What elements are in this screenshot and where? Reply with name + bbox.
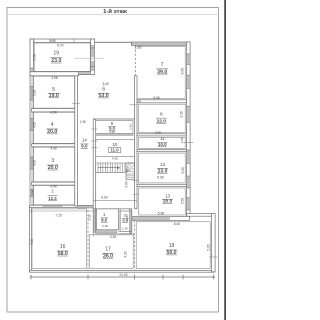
svg-text:6.40: 6.40 bbox=[103, 82, 110, 86]
svg-text:2.85: 2.85 bbox=[135, 46, 142, 50]
svg-text:7: 7 bbox=[161, 62, 164, 68]
svg-text:2.56: 2.56 bbox=[88, 214, 92, 220]
svg-text:7.40: 7.40 bbox=[30, 239, 34, 245]
svg-text:3.10: 3.10 bbox=[102, 224, 108, 228]
svg-text:6: 6 bbox=[102, 87, 105, 93]
svg-text:14: 14 bbox=[82, 138, 87, 143]
svg-text:5.95: 5.95 bbox=[206, 244, 210, 250]
svg-text:3: 3 bbox=[51, 158, 54, 164]
svg-text:5.05: 5.05 bbox=[125, 181, 129, 187]
svg-text:12.4: 12.4 bbox=[48, 196, 57, 201]
svg-text:3.26: 3.26 bbox=[180, 111, 184, 117]
svg-text:1.50: 1.50 bbox=[180, 137, 184, 143]
svg-text:20.0: 20.0 bbox=[163, 199, 173, 205]
svg-text:19.0: 19.0 bbox=[49, 93, 59, 99]
svg-text:4.98: 4.98 bbox=[50, 146, 56, 150]
svg-text:4.98: 4.98 bbox=[50, 110, 56, 114]
svg-text:5.96: 5.96 bbox=[153, 96, 160, 100]
svg-text:3.00: 3.00 bbox=[181, 167, 185, 173]
svg-text:39.0: 39.0 bbox=[157, 69, 167, 75]
svg-text:17: 17 bbox=[105, 247, 111, 253]
svg-text:1.90: 1.90 bbox=[80, 120, 87, 124]
svg-text:1.50: 1.50 bbox=[129, 124, 133, 130]
svg-text:4.50: 4.50 bbox=[112, 157, 118, 161]
svg-text:6.60: 6.60 bbox=[101, 195, 108, 199]
svg-text:6.58: 6.58 bbox=[181, 68, 185, 74]
svg-text:53.0: 53.0 bbox=[98, 93, 108, 99]
svg-text:58.0: 58.0 bbox=[58, 251, 68, 257]
svg-text:8: 8 bbox=[160, 111, 163, 117]
svg-text:2.56: 2.56 bbox=[30, 189, 34, 195]
svg-text:6.70: 6.70 bbox=[57, 43, 64, 47]
svg-text:21.00: 21.00 bbox=[119, 273, 127, 277]
svg-text:4.50: 4.50 bbox=[109, 130, 115, 134]
svg-text:11: 11 bbox=[160, 136, 165, 141]
svg-text:20.0: 20.0 bbox=[47, 129, 57, 135]
svg-text:18: 18 bbox=[169, 243, 175, 249]
svg-text:5.96: 5.96 bbox=[155, 130, 161, 134]
svg-text:26.0: 26.0 bbox=[103, 253, 113, 259]
svg-text:4.00: 4.00 bbox=[33, 122, 37, 128]
svg-text:11.0: 11.0 bbox=[111, 148, 120, 153]
svg-text:4.98: 4.98 bbox=[51, 76, 57, 80]
svg-text:12: 12 bbox=[160, 162, 166, 168]
svg-text:4.35: 4.35 bbox=[110, 235, 117, 239]
svg-text:50.0: 50.0 bbox=[166, 250, 176, 256]
svg-text:9.0: 9.0 bbox=[81, 144, 88, 149]
svg-text:3.58: 3.58 bbox=[32, 54, 36, 60]
svg-text:2.20: 2.20 bbox=[125, 215, 129, 221]
svg-text:7.25: 7.25 bbox=[55, 213, 62, 217]
svg-text:4: 4 bbox=[51, 122, 54, 128]
svg-text:4.00: 4.00 bbox=[33, 160, 37, 166]
svg-text:1-й этаж: 1-й этаж bbox=[103, 8, 128, 15]
svg-text:10: 10 bbox=[112, 142, 118, 147]
svg-text:8.40: 8.40 bbox=[174, 222, 181, 226]
svg-text:3.98: 3.98 bbox=[33, 90, 37, 96]
svg-text:3.56: 3.56 bbox=[181, 198, 185, 204]
svg-text:23.0: 23.0 bbox=[51, 58, 61, 64]
svg-text:4.20: 4.20 bbox=[123, 251, 127, 257]
svg-text:19: 19 bbox=[54, 50, 60, 56]
svg-text:5.96: 5.96 bbox=[158, 211, 165, 215]
svg-text:8.0: 8.0 bbox=[101, 217, 107, 222]
svg-text:5.96: 5.96 bbox=[157, 176, 164, 180]
svg-text:13: 13 bbox=[165, 193, 171, 198]
svg-text:10.0: 10.0 bbox=[158, 142, 167, 147]
svg-text:22.0: 22.0 bbox=[157, 118, 167, 124]
svg-text:16: 16 bbox=[60, 244, 66, 250]
svg-text:1.35: 1.35 bbox=[122, 226, 128, 230]
svg-text:23.0: 23.0 bbox=[158, 168, 168, 174]
svg-text:4.98: 4.98 bbox=[50, 184, 56, 188]
svg-text:20.0: 20.0 bbox=[48, 165, 58, 171]
